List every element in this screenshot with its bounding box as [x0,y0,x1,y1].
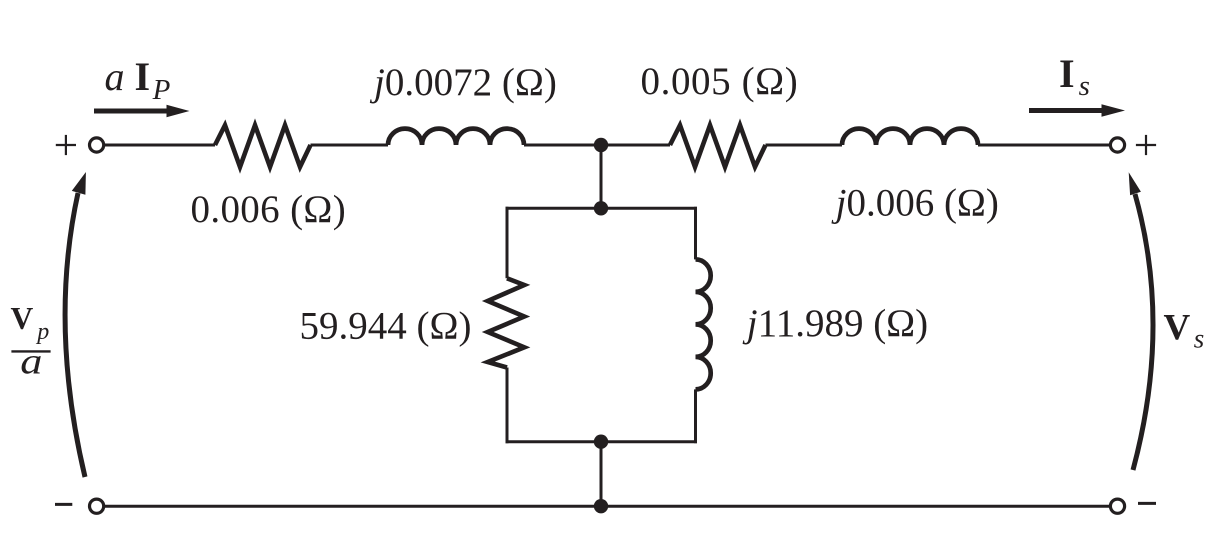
svg-text:j0.0072 (Ω): j0.0072 (Ω) [369,61,557,104]
wire: L2 to right terminal [978,144,1109,147]
wire: L1 to node A [524,144,670,147]
voltage arrow Vs (right side, curving up) [1129,172,1153,470]
wire: vertical stub from node A down to shunt box [600,145,603,208]
label: Vp over a fraction [11,301,51,382]
terminal: bottom-right port [1110,499,1124,513]
wire: top rail, left terminal to R1 [105,144,215,147]
junction dot: shunt box top [594,201,608,215]
inductor L3 (j11.989 ohm, magnetizing reactance) [696,259,711,389]
inductor L1 (j0.0072 ohm, primary leakage reactance) [388,129,524,145]
current arrow for a*Ip (top left) [94,105,190,118]
wire: shunt box bottom edge [506,440,698,443]
wire: shunt box left edge, lower part [506,368,509,444]
svg-text:a: a [20,341,42,382]
svg-text:j0.006 (Ω): j0.006 (Ω) [831,182,999,225]
resistor R1 (0.006 ohm, primary winding resistance) [215,125,311,167]
polarity sign: minus at bottom-right port [1138,502,1156,505]
svg-text:a IP: a IP [105,54,171,106]
junction dot: node A on top rail [594,138,608,152]
polarity sign: plus at top-left port [56,135,76,155]
resistor R2 (0.005 ohm, secondary winding resistance) [670,125,766,167]
terminal: top-left port [90,138,104,152]
polarity sign: plus at top-right port [1136,135,1156,155]
wire: shunt box right edge, lower part [694,389,697,443]
polarity sign: minus at bottom-left port [55,503,72,506]
svg-text:Is: Is [1059,51,1090,102]
wire: between R2 and L2 [766,144,843,147]
resistor R3 (59.944 ohm, core-loss resistance) [488,278,525,367]
wire: bottom rail [105,505,1109,508]
svg-text:59.944 (Ω): 59.944 (Ω) [300,305,472,348]
voltage arrow Vp/a (left side, curving up) [65,172,86,477]
svg-text:0.006 (Ω): 0.006 (Ω) [191,188,347,231]
junction dot: bottom rail [594,499,608,513]
wire: shunt box top edge [506,207,698,210]
svg-text:0.005 (Ω): 0.005 (Ω) [641,60,799,103]
terminal: bottom-left port [90,499,104,513]
svg-text:Vp: Vp [11,301,50,345]
wire: shunt box left edge, upper part [506,207,509,278]
svg-text:j11.989 (Ω): j11.989 (Ω) [742,302,928,345]
junction dot: shunt box bottom [594,435,608,449]
wire: vertical stub from box bottom to bottom rail [600,442,603,507]
terminal: top-right port [1110,138,1124,152]
current arrow for Is (top right) [1029,104,1125,117]
wire: between R1 and L1 [311,144,389,147]
wire: shunt box right edge, upper part [694,207,697,260]
svg-text:Vs: Vs [1164,308,1205,354]
inductor L2 (j0.006 ohm, secondary leakage reactance) [842,129,978,145]
